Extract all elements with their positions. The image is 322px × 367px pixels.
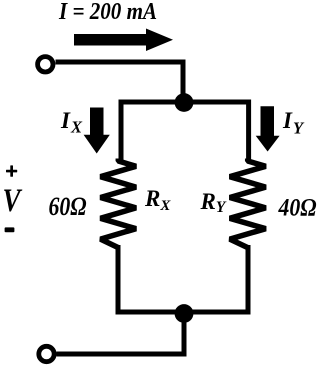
node bottom junction bbox=[175, 304, 194, 323]
resistor RY zigzag bbox=[230, 159, 266, 248]
svg-text:60Ω: 60Ω bbox=[49, 192, 87, 221]
wire bottom rail bbox=[116, 310, 251, 315]
arrow I_X bbox=[84, 108, 110, 154]
terminal bottom-left bbox=[39, 346, 54, 361]
wire bottom horizontal bbox=[57, 352, 187, 357]
wire top horizontal bbox=[56, 60, 186, 65]
wire top drop to node bbox=[181, 60, 186, 97]
wire left branch top bbox=[119, 100, 124, 162]
wire top rail bbox=[119, 100, 252, 105]
current arrow I bbox=[74, 29, 173, 52]
arrow I_Y bbox=[256, 106, 280, 151]
terminal top-left bbox=[38, 57, 53, 72]
wire RY bottom lead bbox=[246, 245, 251, 312]
node top junction bbox=[175, 93, 194, 112]
label plus bbox=[6, 165, 17, 176]
wire right branch top bbox=[246, 100, 251, 162]
svg-text:40Ω: 40Ω bbox=[278, 194, 317, 221]
wire RX bottom lead bbox=[116, 245, 121, 312]
resistor RX zigzag bbox=[101, 159, 137, 248]
label minus bbox=[5, 227, 15, 232]
svg-text:I = 200 mA: I = 200 mA bbox=[58, 0, 157, 25]
svg-text:V: V bbox=[3, 183, 23, 219]
wire node drop bbox=[182, 313, 187, 357]
